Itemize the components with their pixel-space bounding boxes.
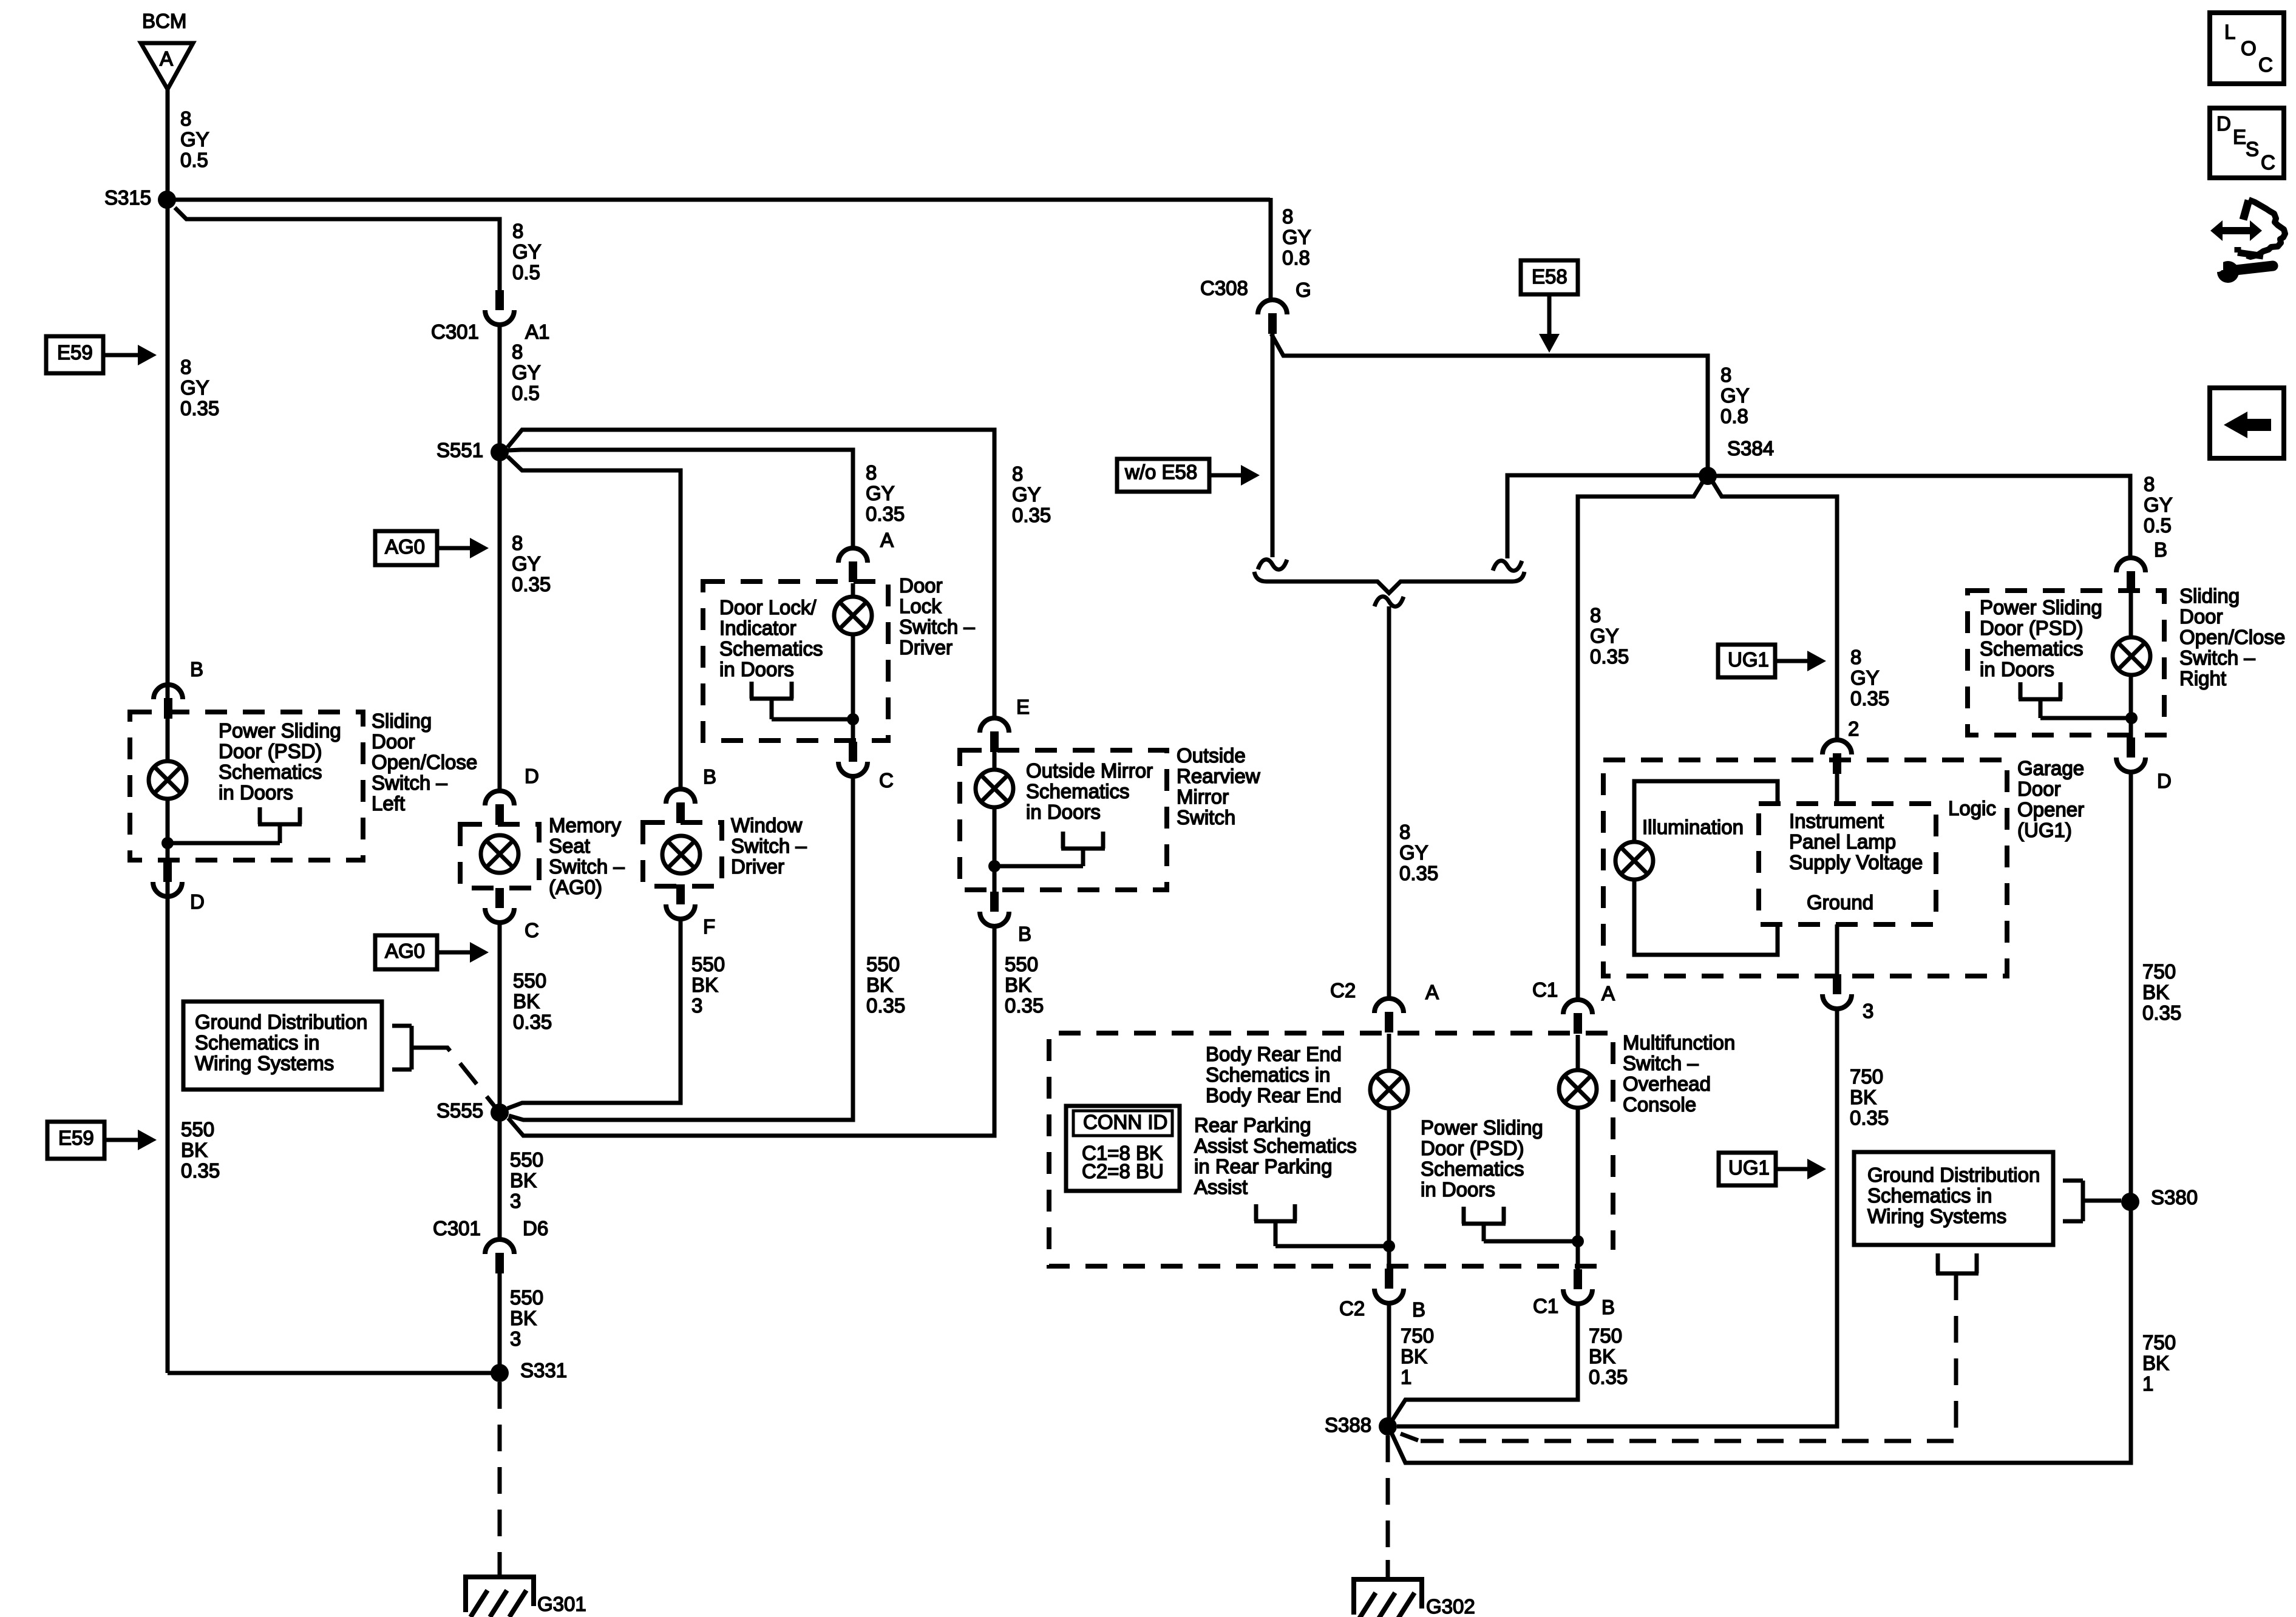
svg-text:0.35: 0.35 — [512, 573, 551, 595]
connector D (sliding door right) — [2116, 737, 2172, 792]
wire label 8 GY 0.5 — [180, 107, 209, 171]
svg-text:Door: Door — [899, 574, 943, 597]
text Memory Seat Switch (AG0) — [549, 814, 625, 898]
text Garage Door Opener (UG1) — [2017, 757, 2084, 841]
svg-text:8: 8 — [866, 461, 877, 484]
svg-text:1: 1 — [2142, 1372, 2153, 1395]
svg-text:B: B — [190, 658, 203, 680]
svg-text:0.35: 0.35 — [181, 1159, 220, 1182]
svg-text:B: B — [1412, 1298, 1425, 1321]
adjust icon hand — [2238, 200, 2285, 257]
wire label 550 BK 0.35 (memory seat) — [513, 969, 552, 1033]
splice S315 — [104, 186, 176, 209]
svg-text:Ground Distribution: Ground Distribution — [195, 1011, 367, 1033]
svg-text:GY: GY — [180, 128, 209, 151]
svg-text:in Doors: in Doors — [1421, 1178, 1495, 1201]
connector C (door lock switch) — [838, 742, 894, 792]
svg-text:Door (PSD): Door (PSD) — [1980, 617, 2084, 639]
svg-text:Open/Close: Open/Close — [372, 751, 477, 773]
wire memory seat C to S555 — [498, 921, 502, 1113]
connector C (memory seat switch) — [485, 888, 539, 941]
svg-text:BK: BK — [513, 990, 540, 1012]
svg-text:BCM: BCM — [142, 10, 186, 32]
svg-text:Driver: Driver — [731, 855, 784, 878]
text Window Switch - Driver — [731, 814, 807, 878]
arrow UG1 lower to wire — [1776, 1159, 1826, 1179]
wire window F to S555 — [508, 919, 681, 1108]
wire rear lamp to C2-B — [1387, 1109, 1391, 1269]
svg-text:0.8: 0.8 — [1720, 405, 1748, 427]
E58 reference box — [1521, 260, 1578, 294]
svg-text:Switch: Switch — [1177, 806, 1235, 829]
svg-text:(AG0): (AG0) — [549, 876, 602, 898]
svg-text:C1: C1 — [1533, 1295, 1558, 1317]
svg-text:550: 550 — [181, 1118, 214, 1141]
lamp body rear end — [1370, 1034, 1408, 1108]
svg-text:C1: C1 — [1532, 978, 1558, 1001]
svg-text:S380: S380 — [2151, 1186, 2198, 1209]
svg-text:750: 750 — [1401, 1324, 1434, 1347]
svg-text:B: B — [2154, 538, 2167, 561]
connector D (memory seat switch) — [485, 791, 514, 825]
wire BCM to S315 — [166, 89, 170, 200]
svg-text:UG1: UG1 — [1728, 1156, 1770, 1179]
text Sliding Door Open/Close Switch - Left — [372, 710, 477, 815]
svg-text:B: B — [1018, 923, 1031, 945]
svg-text:Schematics in: Schematics in — [1867, 1184, 1992, 1207]
Outside Mirror dashed box — [960, 750, 1167, 890]
wire S315 corner down to C308 — [1269, 198, 1273, 300]
svg-text:0.35: 0.35 — [866, 994, 905, 1017]
svg-text:8: 8 — [1590, 604, 1601, 626]
text Sliding Door Open/Close Switch Right — [2179, 585, 2285, 690]
connector 3 (garage door opener) — [1822, 974, 1873, 1022]
brace merge symbol — [1254, 572, 1524, 593]
svg-text:3: 3 — [510, 1327, 521, 1350]
connector E (outside rearview mirror switch) — [980, 718, 1009, 752]
arrow w/o E58 to wire — [1209, 465, 1260, 486]
svg-text:Ground Distribution: Ground Distribution — [1867, 1164, 2040, 1186]
wire label 8 GY 0.8 (C308) — [1282, 205, 1311, 269]
wire 3 to S388 — [1397, 1009, 1837, 1426]
svg-text:A: A — [1425, 981, 1439, 1003]
wire label 8 GY 0.35 (door lock) — [866, 461, 905, 525]
svg-text:Door: Door — [2017, 778, 2061, 800]
splice S380 — [2121, 1186, 2198, 1211]
svg-text:C301: C301 — [433, 1217, 481, 1239]
svg-text:C: C — [2258, 53, 2273, 76]
wire label 8 GY 0.35 (mirror) — [1012, 463, 1051, 526]
connector B (sliding door open/close switch left) — [154, 685, 183, 719]
dashed wire S331 to G301 — [498, 1382, 502, 1558]
svg-text:GY: GY — [1012, 483, 1041, 506]
wire S551 to memory seat D — [498, 452, 502, 791]
svg-text:D: D — [2216, 112, 2231, 135]
svg-text:Window: Window — [731, 814, 803, 836]
text Ground — [1807, 891, 1873, 914]
wire S315 branch to C301-A1 — [175, 208, 500, 290]
svg-text:BK: BK — [1850, 1086, 1877, 1108]
svg-text:Memory: Memory — [549, 814, 622, 836]
svg-text:CONN ID: CONN ID — [1083, 1111, 1167, 1133]
svg-text:GY: GY — [180, 376, 209, 399]
svg-text:0.35: 0.35 — [1399, 862, 1438, 884]
svg-text:Body Rear End: Body Rear End — [1206, 1043, 1342, 1065]
svg-text:in Doors: in Doors — [1026, 801, 1101, 823]
wire label 8 GY 0.35 (C2 wire) — [1399, 821, 1438, 884]
svg-text:A: A — [1601, 982, 1615, 1005]
svg-text:Schematics: Schematics — [1026, 780, 1130, 802]
svg-text:Lock: Lock — [899, 595, 942, 617]
svg-text:C308: C308 — [1200, 277, 1248, 299]
bracket PSD right (continuation) — [2019, 682, 2131, 718]
arrow E59 to wire — [103, 345, 157, 365]
svg-text:Switch –: Switch – — [2179, 646, 2255, 669]
DESC icon box — [2210, 108, 2284, 178]
svg-text:Switch –: Switch – — [372, 771, 447, 794]
svg-text:GY: GY — [512, 361, 541, 384]
BCM module triangle connector A — [141, 43, 193, 89]
svg-text:0.35: 0.35 — [1850, 687, 1889, 710]
text Door Lock/Indicator — [719, 596, 823, 680]
svg-text:BK: BK — [510, 1169, 537, 1192]
svg-text:S331: S331 — [520, 1359, 567, 1381]
text Outside Rearview Mirror Switch — [1177, 744, 1260, 829]
wire S551 arm to window switch B — [508, 456, 681, 789]
tilde break below brace — [1374, 597, 1404, 606]
connector C1-A — [1532, 978, 1615, 1034]
svg-text:in Doors: in Doors — [719, 658, 794, 680]
wire label 750 BK 0.35 (GDO ground) — [1850, 1065, 1889, 1129]
svg-text:S: S — [2246, 138, 2259, 160]
svg-text:E: E — [1016, 696, 1030, 718]
svg-text:Left: Left — [372, 792, 405, 815]
wire label 550 BK 0.35 (mirror) — [1005, 953, 1044, 1017]
svg-text:Switch –: Switch – — [899, 615, 975, 638]
wire label 8 GY 0.5 (above C301) — [512, 220, 542, 283]
connector pin E label — [1016, 696, 1030, 718]
Garage Door Opener dashed box — [1603, 760, 2007, 976]
bracket PSD doors (continuation) — [1462, 1207, 1578, 1241]
wire label 8 GY 0.35 (C1 wire) — [1590, 604, 1629, 668]
bracket ground distribution left — [392, 1026, 425, 1070]
text Door Lock Switch - Driver — [899, 574, 975, 659]
svg-text:0.8: 0.8 — [1282, 246, 1310, 269]
wire label 550 BK 0.35 (door lock) — [866, 953, 905, 1017]
svg-text:A: A — [160, 47, 173, 70]
svg-text:D: D — [190, 890, 205, 913]
svg-text:Sliding: Sliding — [372, 710, 432, 732]
arrow AG0 lower to wire — [437, 942, 489, 963]
svg-text:8: 8 — [512, 220, 523, 242]
junction dot multifunction — [1572, 1235, 1584, 1247]
svg-text:750: 750 — [1589, 1324, 1622, 1347]
text Logic — [1948, 797, 1996, 819]
svg-text:Outside: Outside — [1177, 744, 1246, 767]
wire mirror B to S555 — [508, 925, 994, 1136]
wire brace to C2-A — [1387, 606, 1391, 1000]
Power Sliding Door (PSD) left dashed box — [130, 712, 363, 860]
svg-text:0.35: 0.35 — [1589, 1366, 1628, 1388]
svg-text:D: D — [2157, 770, 2172, 792]
svg-text:G302: G302 — [1426, 1595, 1475, 1617]
svg-text:550: 550 — [513, 969, 546, 992]
svg-text:GY: GY — [1720, 384, 1750, 407]
svg-text:0.35: 0.35 — [513, 1011, 552, 1033]
lamp memory seat switch — [481, 835, 518, 873]
svg-text:Schematics: Schematics — [719, 637, 823, 660]
bracket door lock (continuation) — [750, 682, 853, 719]
svg-text:Assist Schematics: Assist Schematics — [1194, 1134, 1357, 1157]
svg-text:S315: S315 — [104, 186, 151, 209]
svg-text:GY: GY — [1399, 841, 1428, 864]
svg-text:in Doors: in Doors — [1980, 658, 2054, 680]
AG0 reference box (lower) — [375, 935, 437, 969]
svg-text:Driver: Driver — [899, 636, 953, 659]
connector C301-D6 — [433, 1217, 548, 1273]
text Rear Parking Assist Schematics — [1194, 1114, 1357, 1198]
svg-text:G301: G301 — [537, 1593, 586, 1615]
connector pin B label — [190, 658, 203, 680]
arrow UG1 to wire — [1775, 651, 1826, 671]
ground G301 — [466, 1558, 586, 1617]
svg-text:Switch –: Switch – — [1623, 1052, 1699, 1074]
wire label 8 GY 0.8 (S384) — [1720, 364, 1750, 427]
svg-text:Door (PSD): Door (PSD) — [1421, 1137, 1524, 1159]
svg-text:Mirror: Mirror — [1177, 785, 1229, 808]
text Body Rear End Schematics — [1206, 1043, 1342, 1107]
svg-text:550: 550 — [510, 1286, 543, 1309]
svg-text:BK: BK — [866, 974, 893, 996]
E59 reference box (upper) — [46, 336, 103, 373]
connector B (outside mirror lower) — [980, 892, 1031, 945]
svg-text:Switch –: Switch – — [549, 855, 625, 878]
Window Switch dashed box — [643, 822, 722, 886]
svg-text:Console: Console — [1623, 1093, 1696, 1116]
svg-text:0.5: 0.5 — [512, 261, 540, 283]
svg-text:8: 8 — [512, 532, 523, 554]
connector C308-G — [1200, 277, 1311, 334]
svg-text:BK: BK — [691, 974, 718, 996]
lamp Illumination — [1615, 842, 1653, 880]
connector A (door lock switch driver) — [838, 548, 868, 582]
UG1 reference box (upper) — [1718, 645, 1775, 677]
svg-text:GY: GY — [1590, 625, 1619, 647]
text Power Sliding Door right — [1980, 596, 2102, 680]
svg-text:(UG1): (UG1) — [2017, 819, 2072, 841]
connector pin 2 label — [1848, 717, 1859, 740]
wire label 8 GY 0.35 (AG0) — [512, 532, 551, 595]
svg-text:E: E — [2233, 126, 2246, 148]
svg-text:in Rear Parking: in Rear Parking — [1194, 1155, 1332, 1178]
svg-text:C301: C301 — [431, 320, 479, 343]
arrow E59 lower to wire — [104, 1130, 157, 1150]
svg-text:GY: GY — [1282, 226, 1311, 248]
svg-text:B: B — [703, 765, 716, 788]
wire lamp to C connector — [851, 635, 855, 742]
svg-text:0.35: 0.35 — [866, 503, 905, 525]
svg-text:3: 3 — [510, 1190, 521, 1212]
back arrow icon box — [2210, 388, 2284, 458]
wire left trunk to S331 — [168, 1371, 500, 1375]
svg-text:Schematics: Schematics — [219, 761, 322, 783]
svg-text:Rear Parking: Rear Parking — [1194, 1114, 1311, 1136]
wire label 550 BK 3 (above S331) — [510, 1286, 543, 1350]
svg-text:Body Rear End: Body Rear End — [1206, 1084, 1342, 1107]
svg-text:0.35: 0.35 — [180, 397, 219, 419]
svg-text:8: 8 — [1399, 821, 1410, 843]
svg-text:Schematics in: Schematics in — [195, 1031, 319, 1054]
svg-text:0.35: 0.35 — [1590, 645, 1629, 668]
svg-text:GY: GY — [512, 552, 541, 575]
svg-text:Outside Mirror: Outside Mirror — [1026, 759, 1153, 782]
svg-text:0.5: 0.5 — [2144, 514, 2172, 537]
wire label 8 GY 0.35 — [180, 356, 219, 419]
svg-text:BK: BK — [1005, 974, 1031, 996]
lamp multifunction switch — [1559, 1035, 1597, 1108]
splice S551 — [436, 439, 509, 461]
lamp door lock switch — [834, 583, 872, 634]
svg-text:Garage: Garage — [2017, 757, 2084, 779]
svg-text:C: C — [2261, 151, 2275, 174]
dashed link to S555 — [425, 1048, 500, 1113]
svg-text:S555: S555 — [436, 1099, 483, 1122]
svg-text:Assist: Assist — [1194, 1176, 1248, 1198]
svg-text:C2: C2 — [1330, 979, 1356, 1002]
LOC icon box — [2210, 13, 2284, 84]
arrow E58 down to wire — [1539, 294, 1560, 353]
svg-text:BK: BK — [1401, 1345, 1427, 1368]
lamp PSD left schematic — [149, 720, 186, 799]
wire label 550 BK 3 (window) — [691, 953, 725, 1017]
connector C2-A — [1330, 979, 1439, 1032]
svg-text:Multifunction: Multifunction — [1623, 1031, 1735, 1054]
svg-text:8: 8 — [512, 341, 523, 363]
svg-text:w/o E58: w/o E58 — [1124, 461, 1197, 483]
svg-text:Indicator: Indicator — [719, 617, 796, 639]
text Power Sliding Door left — [219, 719, 341, 804]
svg-text:S551: S551 — [436, 439, 483, 461]
svg-text:Switch –: Switch – — [731, 835, 807, 857]
wire S551 arm to mirror switch E — [508, 430, 994, 718]
svg-text:L: L — [2224, 21, 2235, 43]
wire D6 to S331 — [498, 1273, 502, 1373]
svg-text:Overhead: Overhead — [1623, 1073, 1711, 1095]
svg-text:Seat: Seat — [549, 835, 590, 857]
wire C2-B to S388 — [1387, 1304, 1391, 1426]
wire D to S380 to S388 — [1389, 771, 2131, 1463]
text Outside Mirror Schematics — [1026, 759, 1153, 823]
svg-text:F: F — [703, 915, 715, 938]
svg-text:750: 750 — [2142, 960, 2176, 983]
connector F (window switch) — [666, 884, 715, 938]
svg-text:BK: BK — [2142, 981, 2169, 1003]
Ground Distribution box (left) — [183, 1002, 382, 1090]
svg-text:2: 2 — [1848, 717, 1859, 740]
svg-text:BK: BK — [181, 1139, 208, 1161]
svg-text:Logic: Logic — [1948, 797, 1996, 819]
splice S555 — [436, 1099, 509, 1122]
UG1 reference box (lower) — [1719, 1153, 1776, 1185]
Body Rear End dashed box — [1049, 1033, 1608, 1266]
wire label 8 GY 0.5 (below C301) — [512, 341, 541, 404]
lamp window switch — [662, 836, 700, 873]
svg-text:1: 1 — [1401, 1366, 1411, 1388]
svg-text:Wiring Systems: Wiring Systems — [1867, 1205, 2006, 1227]
svg-text:750: 750 — [1850, 1065, 1883, 1088]
svg-text:E58: E58 — [1532, 265, 1567, 288]
svg-text:Power Sliding: Power Sliding — [219, 719, 341, 742]
arrow AG0 to wire — [437, 538, 489, 558]
svg-text:O: O — [2241, 37, 2257, 59]
svg-text:Door: Door — [372, 730, 415, 753]
svg-text:E59: E59 — [57, 341, 93, 364]
svg-text:Power Sliding: Power Sliding — [1980, 596, 2102, 619]
svg-text:3: 3 — [1863, 1000, 1873, 1022]
svg-text:8: 8 — [1720, 364, 1731, 386]
svg-text:C2=8 BU: C2=8 BU — [1082, 1160, 1164, 1182]
svg-text:in Doors: in Doors — [219, 781, 293, 804]
svg-text:Rearview: Rearview — [1177, 765, 1260, 787]
dashed wire GD right to S388 — [1401, 1273, 1956, 1441]
wire label 8 GY 0.35 (UG1 wire) — [1850, 646, 1889, 710]
connector D (sliding door open/close switch left) — [153, 862, 205, 913]
BCM label — [142, 10, 186, 32]
svg-text:A: A — [880, 529, 894, 551]
connector pin B label (right) — [2154, 538, 2167, 561]
svg-text:AG0: AG0 — [385, 535, 425, 558]
dashed wire S388 to G302 — [1386, 1436, 1390, 1577]
junction dot PSD left — [161, 837, 174, 849]
svg-text:Illumination: Illumination — [1642, 816, 1744, 838]
wire mirror lamp to B — [993, 807, 997, 892]
svg-text:Sliding: Sliding — [2179, 585, 2240, 607]
svg-text:Power Sliding: Power Sliding — [1421, 1116, 1543, 1139]
svg-text:Door Lock/: Door Lock/ — [719, 596, 817, 619]
svg-text:550: 550 — [1005, 953, 1038, 975]
tilde break left (C308 wire) — [1258, 333, 1287, 569]
svg-text:750: 750 — [2142, 1331, 2176, 1354]
E59 reference box (lower) — [47, 1122, 104, 1159]
svg-text:Right: Right — [2179, 667, 2226, 690]
wire illumination loop bottom — [1634, 880, 1778, 955]
CONN ID table — [1066, 1106, 1180, 1191]
svg-text:E59: E59 — [58, 1127, 94, 1149]
lamp outside mirror schematic — [976, 752, 1013, 807]
svg-text:C: C — [525, 919, 539, 941]
svg-text:8: 8 — [1282, 205, 1293, 228]
svg-text:GY: GY — [512, 240, 542, 263]
wire C308 to brace — [1271, 334, 1708, 476]
svg-text:C: C — [879, 769, 894, 792]
svg-text:550: 550 — [691, 953, 725, 975]
connector pin D label (memory seat) — [525, 765, 539, 787]
bracket rear parking (continuation) — [1254, 1204, 1389, 1246]
svg-text:D6: D6 — [523, 1217, 548, 1239]
svg-text:550: 550 — [866, 953, 900, 975]
svg-text:Door (PSD): Door (PSD) — [219, 740, 322, 762]
svg-text:AG0: AG0 — [385, 940, 425, 962]
adjust icon double arrow — [2210, 220, 2262, 241]
junction dot rear parking — [1383, 1240, 1395, 1252]
wire 2 to instrument panel box — [1835, 770, 1839, 804]
connector B (window switch driver) — [666, 789, 695, 823]
svg-text:Opener: Opener — [2017, 798, 2084, 821]
wire multifunction lamp to C1-B — [1576, 1108, 1580, 1269]
wire C301 to S551 — [498, 325, 502, 452]
svg-text:Open/Close: Open/Close — [2179, 626, 2285, 648]
wire S315 to C308 (top horizontal) — [167, 198, 1270, 202]
